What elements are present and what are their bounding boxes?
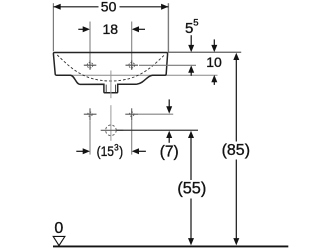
- drain cup inner wall right: [115, 85, 117, 93]
- dim (85) line: [233, 53, 239, 60]
- dimension line 50: [53, 6, 98, 8]
- svg-text:(55): (55): [177, 180, 206, 198]
- tap hole centerline right: [131, 22, 133, 70]
- svg-text:(85): (85): [222, 142, 250, 159]
- dim 5.5 upper arrow: [190, 35, 192, 45]
- bottom edge reference line: [71, 74, 218, 76]
- dim 5.5 lower arrow: [188, 65, 194, 72]
- svg-text:50: 50: [101, 0, 117, 14]
- dim 10 upper arrow: [213, 39, 215, 45]
- dim (55) line: [188, 131, 194, 138]
- svg-text:): ): [119, 143, 123, 159]
- dim (7) upper arrow: [168, 99, 170, 106]
- floor line: [53, 245, 288, 247]
- drain cross horizontal: [101, 129, 124, 131]
- dimension 18 arrows: [78, 28, 83, 30]
- tap centerline extension right: [139, 64, 196, 66]
- drain line to (55): [116, 129, 198, 131]
- arrow left of dim 50: [53, 4, 60, 10]
- svg-text:3: 3: [114, 142, 119, 153]
- dim (7) lower arrow: [166, 131, 172, 138]
- bolt hole left cross: [84, 113, 97, 115]
- svg-text:18: 18: [103, 21, 119, 37]
- bolt hole line to (7): [138, 113, 173, 115]
- dim 10 lower arrow: [211, 75, 217, 82]
- svg-text:5: 5: [193, 18, 198, 29]
- drain cup inner wall left: [105, 85, 107, 93]
- bolt hole right cross: [125, 113, 138, 115]
- svg-text:10: 10: [206, 54, 222, 70]
- dim (15^3) arrows: [76, 150, 83, 152]
- tap hole right cross: [126, 64, 139, 66]
- extension line left of dim 50: [52, 3, 54, 51]
- drain hole dashed circle: [106, 125, 117, 136]
- basin outline: [53, 53, 167, 93]
- datum triangle: [53, 236, 65, 245]
- extension line right of dim 50: [167, 3, 169, 52]
- vertical centerline through drain: [110, 71, 112, 99]
- svg-text:(15: (15: [97, 143, 114, 159]
- tap hole left cross: [84, 64, 97, 66]
- arrow right of dim 50: [161, 4, 168, 10]
- top edge extension line to (85): [168, 51, 241, 53]
- svg-text:(7): (7): [160, 144, 179, 161]
- svg-text:5: 5: [185, 20, 193, 37]
- tap hole centerline left: [89, 22, 91, 70]
- label (15^3): [97, 142, 124, 159]
- inner bowl hidden edge (dashed): [56, 54, 165, 81]
- svg-text:0: 0: [54, 220, 63, 237]
